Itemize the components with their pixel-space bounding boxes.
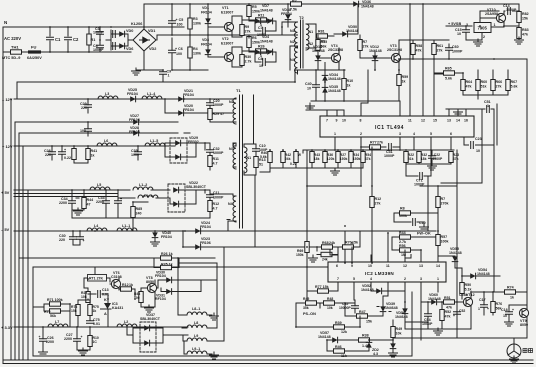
- capacitor C33: [103, 201, 110, 204]
- diode VD12 1N4148: [372, 55, 378, 60]
- svg-text:C17: C17: [479, 298, 486, 302]
- wire: +5V rails: [14, 190, 135, 198]
- ground (IC1 pin9): [306, 103, 315, 110]
- svg-text:4: 4: [370, 277, 372, 281]
- resistor R12c 1k: [121, 287, 132, 291]
- wire: mid verticals to comparators: [307, 104, 497, 338]
- svg-text:R76: R76: [496, 302, 503, 306]
- resistor R5: [247, 6, 251, 17]
- resistor R68 24k: [322, 245, 333, 249]
- resistor R71c: [321, 252, 332, 256]
- svg-text:VT1: VT1: [222, 6, 229, 10]
- resistor R71 100k: [50, 302, 61, 306]
- svg-text:R8: R8: [400, 207, 405, 211]
- resistor R2: [291, 2, 302, 6]
- svg-text:47k: 47k: [445, 315, 451, 319]
- ground (C27): [79, 348, 88, 355]
- svg-text:R10: R10: [347, 79, 354, 83]
- svg-text:L1–5: L1–5: [150, 139, 158, 143]
- transistor VT2 E13007: [224, 52, 233, 61]
- diode VD3: [205, 49, 211, 54]
- svg-text:2200: 2200: [59, 201, 67, 205]
- svg-text:100: 100: [80, 129, 86, 133]
- svg-text:10: 10: [307, 87, 311, 91]
- svg-text:L8–1: L8–1: [192, 307, 200, 311]
- thermistor TH1: [11, 50, 22, 54]
- svg-text:FR104: FR104: [129, 130, 140, 134]
- diode VD31 RF104: [166, 289, 171, 295]
- ground (VT8): [145, 305, 154, 312]
- diode VD55 1N4148: [452, 256, 458, 261]
- svg-text:R38: R38: [362, 334, 369, 338]
- resistor R67: [506, 80, 510, 91]
- resistor R30: [240, 55, 244, 66]
- svg-text:VD1: VD1: [148, 29, 155, 33]
- svg-text:R39: R39: [335, 321, 342, 325]
- svg-text:10: 10: [368, 264, 372, 268]
- wire: IC1 top pin stubs: [306, 4, 494, 183]
- diode VD24 FR104: [195, 228, 200, 234]
- svg-text:1000P: 1000P: [384, 154, 395, 158]
- ground (7905): [474, 39, 483, 46]
- svg-text:1N4148: 1N4148: [328, 77, 341, 81]
- svg-text:10k: 10k: [327, 306, 333, 310]
- svg-text:SBL3040CT: SBL3040CT: [140, 317, 161, 321]
- capacitor C60: [446, 48, 453, 51]
- svg-text:C23: C23: [475, 137, 482, 141]
- svg-text:SBL3040CT: SBL3040CT: [186, 185, 207, 189]
- capacitor C28: [49, 152, 56, 155]
- ground (+5V filter): [74, 208, 83, 215]
- svg-text:10: 10: [259, 64, 263, 68]
- svg-text:R64: R64: [466, 80, 473, 84]
- capacitor C54: [425, 314, 432, 317]
- diode VD34 1N4148: [322, 75, 328, 80]
- resistor R7 270k: [436, 197, 440, 208]
- svg-text:R77 15k: R77 15k: [315, 285, 329, 289]
- svg-text:R26 1k: R26 1k: [161, 252, 173, 256]
- svg-text:R15: R15: [321, 40, 328, 44]
- capacitor C9: [162, 70, 164, 82]
- ground (L8-1): [210, 313, 219, 320]
- resistor R39 12k: [334, 325, 345, 329]
- svg-text:IC1 TL494: IC1 TL494: [375, 125, 404, 131]
- wire: primary top rail: [144, 4, 519, 70]
- svg-text:IC2 LM339N: IC2 LM339N: [365, 271, 394, 276]
- svg-text:C40: C40: [305, 82, 312, 86]
- svg-text:56k: 56k: [50, 314, 56, 318]
- svg-text:150k: 150k: [296, 253, 304, 257]
- resistor R12 27k: [370, 197, 374, 208]
- svg-text:27k: 27k: [363, 45, 369, 49]
- svg-text:R77: R77: [370, 141, 377, 145]
- transistor VT12: [463, 297, 472, 306]
- svg-text:51: 51: [259, 163, 263, 167]
- svg-text:24k: 24k: [285, 157, 291, 161]
- wire: -12V branch: [165, 99, 233, 113]
- svg-text:FR104: FR104: [281, 12, 292, 16]
- capacitor C17: [481, 305, 488, 308]
- svg-text:R44: R44: [87, 198, 94, 202]
- svg-text:15k: 15k: [366, 320, 372, 324]
- svg-text:L1–2: L1–2: [139, 183, 147, 187]
- svg-text:1N4148: 1N4148: [328, 89, 341, 93]
- svg-text:+: +: [487, 307, 489, 311]
- resistor R22: [404, 152, 408, 163]
- svg-text:R6: R6: [252, 36, 257, 40]
- svg-text:51k: 51k: [408, 157, 414, 161]
- svg-text:FR104: FR104: [161, 235, 172, 239]
- inductor L2: [117, 324, 137, 327]
- wire: VD23 branch: [183, 231, 352, 263]
- resistor R74 1k: [505, 290, 516, 294]
- ground (C18): [505, 319, 514, 326]
- wire: R64-R67 row: [460, 70, 508, 99]
- svg-text:18k: 18k: [314, 157, 320, 161]
- svg-text:N2: N2: [290, 40, 295, 44]
- capacitor C40: [313, 85, 320, 88]
- resistor R25: [161, 265, 172, 269]
- ground (VD40): [151, 239, 160, 246]
- svg-text:FR104: FR104: [201, 11, 212, 15]
- svg-text:35k: 35k: [303, 306, 309, 310]
- svg-text:C18: C18: [501, 308, 508, 312]
- resistor R23: [449, 152, 453, 163]
- transistor VT10 2SA958: [496, 13, 505, 22]
- svg-text:18k: 18k: [421, 157, 427, 161]
- resistor R13: [254, 157, 258, 168]
- svg-text:150k: 150k: [252, 41, 260, 45]
- svg-text:R7: R7: [363, 40, 368, 44]
- svg-text:24k: 24k: [329, 241, 335, 245]
- resistor R77b 15k: [318, 289, 329, 293]
- zener VD56: [402, 308, 408, 313]
- svg-text:RT1 27K: RT1 27K: [89, 277, 103, 281]
- capacitor C18: [506, 312, 513, 315]
- inductor L8: [187, 325, 207, 328]
- resistor R34: [349, 152, 353, 163]
- svg-text:2200: 2200: [46, 340, 54, 344]
- resistor R56 1M: [400, 248, 411, 252]
- svg-text:47k: 47k: [446, 306, 452, 310]
- diode VD5 1N4148: [267, 49, 272, 55]
- capacitor C34: [69, 201, 76, 204]
- capacitor C8: [263, 59, 266, 66]
- svg-text:C3198: C3198: [111, 275, 122, 279]
- svg-text:47k: 47k: [416, 49, 422, 53]
- svg-text:10: 10: [503, 314, 507, 318]
- svg-text:5: 5: [353, 277, 355, 281]
- svg-text:TH1: TH1: [11, 45, 19, 50]
- svg-text:C28k: C28k: [459, 293, 468, 297]
- svg-text:12k: 12k: [341, 330, 347, 334]
- svg-text:120k: 120k: [327, 157, 335, 161]
- resistor R83: [517, 28, 521, 39]
- svg-text:MTC 5D–9: MTC 5D–9: [2, 56, 20, 60]
- fuse FU: [28, 50, 41, 53]
- diode VD50 1N4148: [342, 31, 347, 37]
- svg-text:9: 9: [351, 264, 353, 268]
- resistor R60: [476, 80, 480, 91]
- svg-text:N3: N3: [229, 147, 234, 151]
- resistor R29: [208, 109, 212, 120]
- svg-text:L3: L3: [105, 92, 109, 96]
- svg-text:R12: R12: [375, 197, 382, 201]
- svg-text:5.6k: 5.6k: [445, 77, 452, 81]
- svg-text:100: 100: [176, 52, 182, 56]
- svg-text:R56: R56: [399, 244, 406, 248]
- svg-text:R41: R41: [91, 149, 98, 153]
- svg-text:+ 5VSB: + 5VSB: [448, 22, 461, 26]
- svg-text:2: 2: [360, 132, 362, 136]
- svg-text:1500P: 1500P: [433, 157, 444, 161]
- svg-text:1k: 1k: [347, 84, 351, 88]
- wire: sense lines: [19, 258, 330, 267]
- svg-text:1: 1: [487, 104, 489, 108]
- svg-text:8: 8: [360, 119, 362, 123]
- transistor VT3 2SC3198: [391, 53, 400, 62]
- svg-text:R59: R59: [402, 75, 409, 79]
- svg-text:+ C5: + C5: [176, 18, 184, 22]
- capacitor C5: [169, 21, 176, 24]
- resistor R40b: [268, 152, 272, 163]
- capacitor C39: [77, 237, 84, 240]
- svg-text:5.1k: 5.1k: [465, 288, 472, 292]
- svg-text:N2: N2: [229, 100, 234, 104]
- svg-text:240: 240: [136, 212, 142, 216]
- svg-text:R49: R49: [396, 327, 403, 331]
- diode VD9 1N4148: [267, 18, 272, 24]
- resistor R7: [358, 40, 362, 51]
- svg-text:VD2: VD2: [149, 47, 156, 51]
- diode VD38 FR104: [285, 14, 291, 19]
- inductor L7: [48, 324, 68, 327]
- svg-text:4.7: 4.7: [213, 162, 218, 166]
- wire: base drive links: [249, 4, 276, 62]
- svg-text:150k: 150k: [252, 10, 260, 14]
- inductor L1-1a: [138, 195, 158, 198]
- diode VD0: [119, 31, 124, 37]
- svg-text:15k: 15k: [522, 17, 528, 21]
- svg-text:9: 9: [336, 119, 338, 123]
- svg-text:N1: N1: [247, 156, 252, 160]
- resistor R15: [316, 40, 320, 51]
- fan M: [507, 344, 521, 358]
- resistor R66: [491, 80, 495, 91]
- svg-text:VD0: VD0: [126, 29, 133, 33]
- wire: +12V rail: [14, 145, 168, 147]
- diode pair VD29 FR302: [170, 138, 187, 163]
- svg-text:L1–4: L1–4: [147, 92, 155, 96]
- resistor R35 0.22: [72, 149, 76, 160]
- svg-text:N3: N3: [290, 29, 295, 33]
- resistor R85: [131, 207, 135, 218]
- resistor R11: [256, 18, 267, 22]
- svg-text:R60: R60: [481, 80, 488, 84]
- inductor L8-1: [187, 312, 207, 315]
- wire: VD24 branch: [344, 231, 346, 263]
- capacitor pair to bridge: [106, 30, 116, 50]
- svg-text:1N4148: 1N4148: [361, 5, 374, 9]
- wire: +3.3V rail: [14, 326, 188, 328]
- svg-text:KL206: KL206: [131, 22, 142, 26]
- svg-text:R26: R26: [258, 45, 265, 49]
- zener VD58: [390, 343, 396, 348]
- wire: AC line top: [3, 27, 184, 52]
- svg-text:+ 5V: + 5V: [1, 190, 10, 195]
- resistor R70 15k: [343, 245, 354, 249]
- svg-text:L4: L4: [94, 224, 98, 228]
- winding T2 N1: [295, 22, 298, 48]
- resistor R52 47k: [440, 310, 444, 321]
- svg-text:12: 12: [403, 264, 407, 268]
- resistor R73 15k: [76, 305, 80, 316]
- capacitor C35b: [352, 306, 359, 309]
- svg-text:R46: R46: [335, 345, 342, 349]
- svg-text:15k: 15k: [352, 241, 358, 245]
- ground (bridge): [132, 68, 141, 75]
- wire: VT10 bias: [480, 11, 519, 28]
- resistor R69 150k: [305, 242, 309, 253]
- svg-text:1C: 1C: [93, 340, 98, 344]
- resistor R4: [188, 47, 192, 58]
- transistor VT1 E13007: [224, 22, 233, 31]
- wire: -5V rail: [14, 230, 436, 232]
- resistor R82: [517, 12, 521, 23]
- svg-text:1: 1: [478, 307, 480, 311]
- svg-text:0.22: 0.22: [64, 156, 71, 160]
- resistor R58: [411, 44, 415, 55]
- wire: comp row 2: [406, 150, 451, 176]
- capacitor C71: [420, 173, 423, 180]
- diode VD52 1N4148: [376, 288, 381, 294]
- resistor R59: [397, 75, 401, 86]
- svg-text:150k: 150k: [340, 157, 348, 161]
- diode VD6: [119, 43, 124, 49]
- inductor L1-2: [133, 187, 153, 190]
- wire: R2 line to right: [518, 4, 520, 11]
- svg-text:L9–1: L9–1: [192, 347, 200, 351]
- svg-text:+ C6: + C6: [175, 47, 183, 51]
- svg-text:27k: 27k: [437, 49, 443, 53]
- svg-text:100k: 100k: [399, 214, 407, 218]
- resistor R51 47k: [444, 300, 455, 304]
- resistor R41: [86, 149, 90, 160]
- svg-text:1N4148: 1N4148: [260, 40, 273, 44]
- svg-text:6A/250V: 6A/250V: [27, 56, 42, 60]
- IC1 TL494: [320, 116, 474, 137]
- svg-text:N4: N4: [228, 202, 233, 206]
- svg-text:270k: 270k: [441, 202, 449, 206]
- diode VD21 FR104: [178, 96, 183, 102]
- resistor R38 1.4k: [359, 338, 370, 342]
- svg-text:R30: R30: [245, 55, 252, 59]
- svg-text:R11: R11: [258, 14, 264, 18]
- svg-text:13: 13: [419, 264, 423, 268]
- svg-text:R52: R52: [445, 310, 452, 314]
- svg-text:1N4648: 1N4648: [385, 306, 398, 310]
- svg-text:R7: R7: [441, 197, 446, 201]
- svg-text:R12: R12: [213, 202, 220, 206]
- resistor R44: [82, 198, 86, 209]
- inductor L6: [97, 143, 117, 146]
- svg-text:1k: 1k: [510, 296, 514, 300]
- diode VD28 FR104: [133, 130, 138, 136]
- inductor L1-1b: [117, 228, 137, 231]
- svg-text:R74: R74: [507, 286, 514, 290]
- svg-text:220: 220: [59, 238, 65, 242]
- svg-text:T1: T1: [236, 88, 241, 93]
- resistor R46: [294, 152, 298, 163]
- svg-text:R85: R85: [136, 207, 143, 211]
- resistor R31: [342, 79, 346, 90]
- wire: -12V rail: [14, 98, 233, 100]
- ground (L9-1): [210, 352, 219, 359]
- wire: IC2 bottom stubs: [338, 282, 438, 340]
- svg-text:+: +: [512, 308, 514, 312]
- diode VD20 FR104: [178, 110, 183, 116]
- svg-text:R11: R11: [213, 157, 219, 161]
- svg-text:C8: C8: [258, 57, 263, 61]
- svg-text:RF104: RF104: [155, 297, 166, 301]
- transistor VT4 2SC3198: [331, 53, 340, 62]
- svg-text:150k: 150k: [353, 157, 361, 161]
- wire: T2 connections: [282, 22, 316, 74]
- resistor R11b: [208, 156, 212, 167]
- svg-text:R61: R61: [437, 44, 444, 48]
- transistor VT9 8050: [519, 308, 528, 317]
- svg-text:27k: 27k: [377, 141, 383, 145]
- inductor L5: [90, 187, 110, 190]
- regulator 7905: [474, 23, 491, 33]
- inductor L4: [87, 228, 107, 231]
- svg-text:VD3: VD3: [202, 38, 209, 42]
- svg-text:FR104: FR104: [183, 108, 194, 112]
- svg-text:4: 4: [413, 132, 415, 136]
- svg-text:VD1: VD1: [202, 6, 209, 10]
- svg-text:L7: L7: [55, 320, 59, 324]
- svg-text:7.5k: 7.5k: [290, 8, 297, 12]
- capacitor C30: [70, 237, 77, 240]
- ground (comp row): [428, 163, 437, 170]
- ground (C26): [39, 349, 48, 356]
- inductor L1-5: [145, 143, 165, 146]
- svg-text:12: 12: [421, 119, 425, 123]
- svg-text:VD6: VD6: [126, 47, 133, 51]
- diode VD27 FR104: [133, 119, 138, 125]
- svg-text:11: 11: [386, 264, 390, 268]
- svg-text:24k: 24k: [322, 258, 328, 262]
- svg-text:+ 12V: + 12V: [2, 144, 13, 149]
- ground (VT12 emitter): [434, 328, 443, 335]
- svg-text:VD36: VD36: [362, 0, 371, 4]
- svg-text:FR106: FR106: [200, 241, 211, 245]
- wire: fan feed: [393, 338, 527, 344]
- svg-text:+: +: [39, 335, 41, 339]
- resistor R75 1k: [88, 305, 92, 316]
- svg-text:N1: N1: [309, 30, 314, 34]
- svg-text:R44: R44: [399, 231, 406, 235]
- wire: IC2 top stubs: [330, 233, 438, 262]
- svg-text:3: 3: [420, 277, 422, 281]
- winding T1 N4: [233, 196, 236, 222]
- capacitor C10b: [413, 219, 416, 226]
- resistor R46b 11k: [334, 349, 345, 353]
- svg-text:R25 1k: R25 1k: [161, 263, 173, 267]
- svg-text:7905: 7905: [478, 26, 488, 31]
- svg-text:FR104: FR104: [129, 118, 140, 122]
- svg-text:1: 1: [494, 23, 496, 27]
